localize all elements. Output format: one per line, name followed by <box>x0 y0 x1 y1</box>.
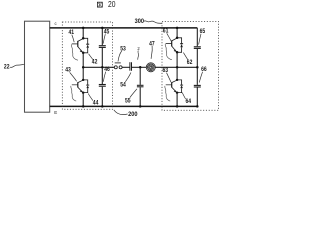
node: right leg top <box>176 27 179 30</box>
node: cap column mid <box>101 66 104 69</box>
label 54 <box>120 73 131 89</box>
wire: mid rail connector to capacitor 54 <box>122 66 130 68</box>
svg-text:65: 65 <box>200 28 206 35</box>
svg-text:42: 42 <box>92 59 98 66</box>
wire: left leg column upper <box>82 28 84 38</box>
svg-text:55: 55 <box>125 97 131 104</box>
label 42 <box>89 54 98 66</box>
connector 53 (two terminals) <box>114 63 122 69</box>
gate lead Q63 <box>165 86 170 101</box>
coil L47 <box>146 63 155 72</box>
node: left leg midpoint <box>82 66 85 69</box>
label 45 <box>103 29 110 44</box>
node: right leg bottom <box>176 105 179 108</box>
node: right cap column mid <box>196 66 199 69</box>
wire: mid rail coil to right leg <box>155 66 197 68</box>
capacitor C55 <box>137 85 144 87</box>
label 200 <box>114 110 138 118</box>
node: left leg bottom <box>82 105 85 108</box>
label 47 <box>149 40 155 58</box>
capacitor C54 (series) <box>130 62 132 70</box>
label 43 <box>65 67 76 82</box>
svg-text:64: 64 <box>186 98 192 105</box>
node: cap column bottom <box>101 105 104 108</box>
svg-text:20: 20 <box>108 0 116 9</box>
gate lead Q61 <box>165 44 172 60</box>
label 55 <box>125 89 137 105</box>
svg-text:61: 61 <box>163 28 169 35</box>
wire: branch to capacitor 55 <box>139 67 141 106</box>
wire: top rail (node c) <box>50 27 198 29</box>
svg-text:63: 63 <box>163 67 169 74</box>
node junction at branch 55 <box>139 66 142 69</box>
label 41 <box>69 29 75 42</box>
battery 22 <box>25 21 50 112</box>
capacitor C66 <box>194 85 201 87</box>
wire: right leg column lower <box>176 93 178 107</box>
transistor Q61 with diode D62 <box>166 37 183 54</box>
wire: right leg column middle <box>176 52 178 80</box>
dashed box 200 (left converter) <box>62 22 112 109</box>
junction at bottom rail branch 55 <box>139 105 142 108</box>
wire: mid rail cap54 to coil <box>132 66 146 68</box>
node: right leg midpoint <box>176 66 179 69</box>
label 61 <box>163 28 171 42</box>
node: right cap column bottom <box>196 105 199 108</box>
svg-text:c: c <box>55 21 58 26</box>
label 46 <box>103 66 110 82</box>
svg-text:E: E <box>54 110 57 115</box>
svg-text:41: 41 <box>69 29 75 36</box>
svg-text:62: 62 <box>187 59 193 66</box>
svg-text:44: 44 <box>93 99 99 106</box>
label 300 <box>135 18 162 25</box>
wire: right leg column upper <box>176 28 178 38</box>
wire: left leg column lower <box>82 93 84 107</box>
svg-text:200: 200 <box>128 111 138 118</box>
node: cap column top <box>101 27 104 30</box>
label 22 <box>4 64 25 71</box>
transistor Q41 with diode D42 <box>72 37 89 54</box>
svg-text:45: 45 <box>104 29 110 36</box>
label 63 <box>163 67 172 82</box>
wire: left capacitor column <box>101 28 103 107</box>
wire: bottom rail (node E) <box>50 105 198 107</box>
gate lead Q43 <box>71 86 76 101</box>
wire: right capacitor column <box>196 28 198 107</box>
svg-text:2: 2 <box>137 46 140 51</box>
label 64 <box>182 93 191 106</box>
svg-text:22: 22 <box>4 64 10 71</box>
capacitor C46 <box>99 85 106 87</box>
label 65 <box>199 28 206 44</box>
transistor Q43 with diode D44 <box>72 79 89 94</box>
transistor Q63 with diode D64 <box>166 79 183 94</box>
capacitor C45 <box>99 46 106 48</box>
wire: mid rail left segment <box>83 66 114 68</box>
label 53 <box>118 45 126 61</box>
label 62 <box>183 53 192 67</box>
wire: left leg column middle <box>82 53 84 80</box>
label 66 <box>199 66 207 83</box>
label 44 <box>88 94 99 107</box>
node: left leg top <box>82 27 85 30</box>
gate lead Q41 <box>71 44 78 60</box>
capacitor C65 <box>194 47 201 49</box>
label 2 (wire) <box>137 46 140 60</box>
svg-text:54: 54 <box>120 82 126 89</box>
svg-text:66: 66 <box>201 66 207 73</box>
dashed box 300 (right converter) <box>162 22 219 111</box>
svg-text:46: 46 <box>104 66 110 73</box>
figure title 図 20 <box>97 0 116 9</box>
svg-text:300: 300 <box>135 18 145 25</box>
